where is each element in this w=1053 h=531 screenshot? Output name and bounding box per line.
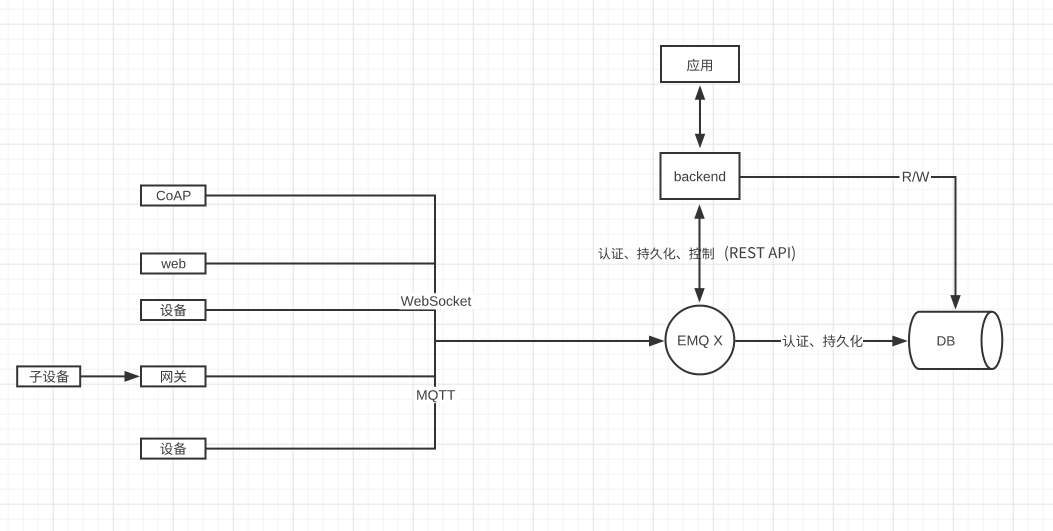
arrowhead into gateway <box>125 371 141 382</box>
wire app to backend <box>699 99 701 135</box>
box gateway (网关) <box>141 366 206 386</box>
box web <box>141 254 206 274</box>
label bg R/W <box>900 169 932 185</box>
label 网关 <box>161 370 186 382</box>
node DB cylinder inner rim <box>982 312 992 369</box>
arrowhead down into EMQX top <box>694 288 705 303</box>
arrowhead down into backend top <box>695 134 706 149</box>
label backend <box>675 171 725 181</box>
label CoAP <box>157 191 191 201</box>
label web <box>161 258 185 268</box>
arrowhead into DB left <box>892 336 908 347</box>
box device-top (设备) <box>141 300 206 320</box>
label 应用 <box>687 59 712 72</box>
label bg 认证、持久化 <box>781 333 863 349</box>
wire web to bus <box>206 263 437 265</box>
node EMQ X circle <box>666 306 735 375</box>
wire vertical bus <box>434 196 436 449</box>
label MQTT <box>417 390 455 402</box>
wire EMQX to DB <box>735 340 893 342</box>
arrowhead up into app <box>695 85 706 100</box>
label 子设备 <box>30 370 70 383</box>
arrowhead into DB top <box>950 295 961 310</box>
label 设备 bottom <box>160 442 186 455</box>
arrowhead into EMQX <box>649 336 665 347</box>
box backend <box>661 153 740 199</box>
label 认证、持久化、控制 <box>598 248 714 260</box>
label R/W <box>903 171 929 181</box>
label WebSocket <box>401 296 471 306</box>
wire device-top to bus <box>206 309 437 311</box>
wire backend to EMQX <box>699 218 701 289</box>
label 设备 top <box>160 304 186 317</box>
wire gateway to bus <box>206 375 437 377</box>
arrowhead up into backend bottom <box>694 204 705 219</box>
wire backend to DB (R/W) <box>741 177 956 296</box>
node DB cylinder body <box>909 312 1002 369</box>
wire CoAP to bus <box>206 195 437 197</box>
label bg MQTT <box>414 387 459 403</box>
label (REST API) <box>725 246 795 261</box>
label DB <box>938 336 955 345</box>
wire sub-device to gateway <box>80 375 126 377</box>
label 认证、持久化 <box>783 335 863 347</box>
label bg WebSocket <box>400 293 474 309</box>
box sub-device (子设备) <box>17 366 80 386</box>
box app (应用) <box>661 46 739 82</box>
wire device-bottom to bus <box>206 448 437 450</box>
wire bus to EMQX <box>435 340 651 342</box>
box device-bottom (设备) <box>141 439 206 459</box>
box CoAP <box>141 186 206 206</box>
label EMQ X <box>678 335 722 348</box>
